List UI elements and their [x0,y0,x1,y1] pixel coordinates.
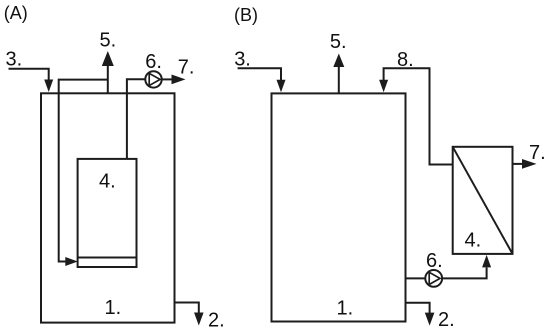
svg-text:(A): (A) [4,3,28,23]
svg-text:8.: 8. [397,49,414,71]
arrowhead outlet 2 (A) [194,313,204,326]
svg-text:1.: 1. [337,298,354,320]
pipe outlet 2 (A) [175,303,199,314]
arrowhead vent 5 (B) [333,54,344,68]
arrowhead inlet 3 (B) [277,80,286,93]
arrowhead vent 5 (A) [102,51,114,66]
membrane diagonal (B) [453,147,513,254]
arrowhead inlet 8 (B) [379,80,388,93]
pipe permeate outlet 7 (B) [513,163,523,165]
pipe inlet 3 (A) [9,69,49,80]
arrowhead outlet 2 (B) [425,313,435,326]
svg-text:7.: 7. [178,57,195,79]
pump 6 (B) [425,270,442,287]
pump impeller triangle (A) [149,73,160,85]
svg-text:6.: 6. [145,51,162,73]
arrowhead into module 4 (B) [482,255,491,268]
svg-text:(B): (B) [234,5,258,25]
pipe inlet 3 (B) [238,68,281,80]
pipe permeate to pump (A) [127,79,145,159]
arrowhead recirculation into module 4 (A) [65,257,78,266]
tank 1 (B) [272,93,406,321]
arrowhead inlet 3 (A) [44,80,53,93]
pipe tank to pump (B) [406,277,426,279]
arrowhead outlet 7 (B) [522,159,537,169]
pump impeller triangle (B) [429,272,440,284]
arrowhead discharge 7 (A) [172,75,186,85]
svg-text:4.: 4. [99,171,116,193]
pipe pump to module 4 (B) [442,268,487,279]
pipe vent 5 (B) [338,66,340,93]
svg-text:7.: 7. [529,142,546,164]
pipe vent 5 (A) [107,64,109,93]
svg-text:4.: 4. [465,230,482,252]
pump 6 (A) [145,71,161,87]
pipe recirculation (A) [59,80,108,262]
tank 1 (A) [41,93,175,322]
pipe outlet 2 (B) [406,303,430,313]
svg-text:5.: 5. [330,31,347,53]
svg-text:6.: 6. [426,250,443,272]
svg-text:3.: 3. [6,49,23,71]
membrane module 4 (B) [453,147,513,254]
membrane plate line (A) [78,257,137,259]
svg-text:1.: 1. [105,297,122,319]
membrane module 4 (A) [78,159,137,267]
pipe inlet 8 (B) [384,68,453,164]
svg-text:2.: 2. [438,309,455,331]
svg-text:3.: 3. [234,49,251,71]
pipe discharge 7 (A) [162,78,173,80]
svg-text:2.: 2. [208,310,225,332]
svg-text:5.: 5. [100,30,117,52]
